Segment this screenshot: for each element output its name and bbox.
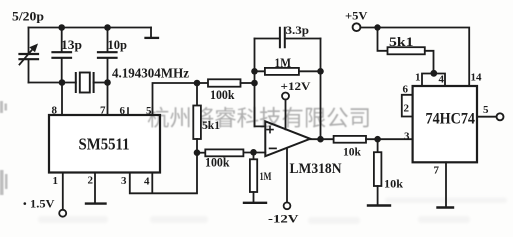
capacitor 13p plates xyxy=(53,52,72,58)
svg-text:10k: 10k xyxy=(343,145,361,159)
resistor 100k (bottom) xyxy=(205,149,243,156)
svg-text:5: 5 xyxy=(483,104,489,116)
wire 100k to node xyxy=(241,82,255,84)
wire 10k to 74HC74 pin 3 xyxy=(366,138,413,140)
wire pin6-pin2 loop xyxy=(402,95,413,117)
svg-text:14: 14 xyxy=(471,72,483,84)
wire pins 3,4 bus xyxy=(130,153,197,194)
node: inverting input xyxy=(250,149,257,156)
svg-text:100k: 100k xyxy=(205,156,230,170)
top rail stub bar xyxy=(146,37,159,39)
resistor 5k1 (right) xyxy=(388,47,425,54)
node: 10k divider xyxy=(374,136,381,143)
resistor 1M (feedback) xyxy=(255,70,321,72)
resistor 10k (shunt) vertical xyxy=(377,139,379,152)
node: pin3/4 bus / 5k1 / 100k xyxy=(194,149,201,156)
capacitor 10p plates xyxy=(98,52,117,58)
svg-text:1: 1 xyxy=(415,72,421,84)
trimmer capacitor C1 arrow xyxy=(20,48,35,65)
svg-text:LM318N: LM318N xyxy=(290,161,342,177)
terminal +12V xyxy=(282,93,289,100)
wire 100k to inverting node xyxy=(243,152,265,154)
crystal X1 body xyxy=(80,73,90,93)
svg-text:100k: 100k xyxy=(210,88,235,102)
wire -12V xyxy=(286,148,288,202)
wire to 100k xyxy=(197,82,208,84)
terminal -12V xyxy=(284,202,291,209)
capacitor 3.3p wires xyxy=(255,38,321,40)
svg-text:1M: 1M xyxy=(260,169,272,183)
ground (10k) xyxy=(368,204,390,206)
svg-text:5: 5 xyxy=(146,105,152,117)
node: crystal right / pin 7 xyxy=(104,79,111,86)
pin 6 stub SM5511 xyxy=(127,108,129,115)
wire node to 100k (bottom) xyxy=(197,152,205,154)
capacitor 10p wires xyxy=(107,28,109,83)
wire +12V to op-amp xyxy=(285,100,287,130)
svg-text:5/20p: 5/20p xyxy=(12,10,44,24)
svg-text:10p: 10p xyxy=(108,38,128,52)
wire 5k1 to pins 1,4 xyxy=(425,51,434,74)
trimmer capacitor C1 bottom wire xyxy=(28,61,30,83)
svg-text:6: 6 xyxy=(120,105,126,117)
wire crystal row right xyxy=(94,82,108,84)
node: pins 1,4 tie xyxy=(430,70,437,77)
svg-text:1: 1 xyxy=(53,175,59,187)
ground (pin 2) xyxy=(86,202,106,204)
wire +5V to 5k1 xyxy=(378,28,388,51)
op-amp - symbol xyxy=(270,147,276,149)
svg-text:+12V: +12V xyxy=(281,79,311,93)
wire pin 2 to ground xyxy=(94,173,96,203)
wire pin 5 riser xyxy=(153,83,198,115)
wire pin 1 to terminal xyxy=(62,173,64,210)
label +1.5V dot xyxy=(24,202,27,205)
svg-text:5k1: 5k1 xyxy=(389,35,414,49)
svg-text:3: 3 xyxy=(121,175,127,187)
trimmer capacitor C1 plates xyxy=(20,54,39,59)
wire pin 7 xyxy=(107,83,109,116)
svg-text:74HC74: 74HC74 xyxy=(426,111,476,128)
op-amp + symbol xyxy=(267,127,273,133)
svg-text:1.5V: 1.5V xyxy=(30,199,55,211)
wire bracket pins 1,4 xyxy=(422,74,445,87)
terminal output xyxy=(497,113,504,120)
capacitor 13p wires xyxy=(61,28,63,83)
watermark row xyxy=(148,107,369,128)
ground (1M) xyxy=(244,202,266,204)
node: crystal left / pin 8 xyxy=(59,79,66,86)
wire pin 5 output xyxy=(477,116,497,118)
svg-text:4.194304MHz: 4.194304MHz xyxy=(112,67,189,82)
svg-text:3.3p: 3.3p xyxy=(286,23,310,37)
trimmer capacitor C1 top wire xyxy=(28,28,30,53)
svg-text:4: 4 xyxy=(439,73,445,85)
feedback left riser xyxy=(255,39,266,127)
watermark partial left edge upper xyxy=(0,101,8,195)
node: +5V / 5k1 xyxy=(374,24,380,30)
crystal X1 plates xyxy=(76,73,94,92)
node: 1M right xyxy=(317,68,324,75)
svg-text:-12V: -12V xyxy=(268,211,299,225)
terminal +1.5V xyxy=(59,210,66,217)
svg-text:5k1: 5k1 xyxy=(202,118,220,132)
svg-text:2: 2 xyxy=(404,103,410,115)
svg-text:8: 8 xyxy=(52,105,58,117)
svg-text:1M: 1M xyxy=(275,56,292,70)
ground (pin 7) xyxy=(438,206,454,208)
resistor 10k (series) xyxy=(334,136,366,143)
wire pin 7 to ground xyxy=(445,162,447,207)
wire crystal row left xyxy=(29,82,76,84)
svg-text:6: 6 xyxy=(403,83,409,95)
svg-text:SM5511: SM5511 xyxy=(79,134,130,153)
watermark partial left edge lower xyxy=(0,170,4,195)
svg-text:3: 3 xyxy=(404,131,410,143)
resistor 100k (top) xyxy=(208,79,241,86)
wire +5V rail xyxy=(361,28,470,87)
faint bottom smudges xyxy=(38,198,507,225)
top rail wire xyxy=(29,27,152,29)
node: rail / 10p xyxy=(104,24,111,31)
terminal +5V xyxy=(353,23,361,31)
node: feedback / 1M left xyxy=(251,68,258,75)
node: pin5 / 100k / 5k1 xyxy=(194,80,201,87)
svg-text:2: 2 xyxy=(88,175,94,187)
svg-text:+5V: +5V xyxy=(345,9,368,23)
IC U1 SM5511 box xyxy=(49,115,160,173)
svg-text:7: 7 xyxy=(100,105,106,117)
op-amp U2 triangle xyxy=(265,121,310,156)
svg-text:13p: 13p xyxy=(61,38,82,52)
wire pin 8 xyxy=(61,83,63,116)
node: output xyxy=(317,136,324,143)
svg-text:10k: 10k xyxy=(384,176,403,190)
resistor 5k1 (left) vertical xyxy=(196,83,198,106)
node: feedback / 100k xyxy=(251,80,258,87)
svg-text:7: 7 xyxy=(434,165,440,177)
top rail stub drop xyxy=(150,28,152,38)
capacitor 3.3p plates xyxy=(280,28,285,48)
wire op-amp output xyxy=(310,138,333,140)
feedback right riser xyxy=(320,39,322,140)
node: rail / 13p xyxy=(58,24,65,31)
svg-text:4: 4 xyxy=(144,176,150,188)
resistor 1M (to ground) vertical xyxy=(253,152,255,159)
IC U3 74HC74 box xyxy=(413,86,477,162)
